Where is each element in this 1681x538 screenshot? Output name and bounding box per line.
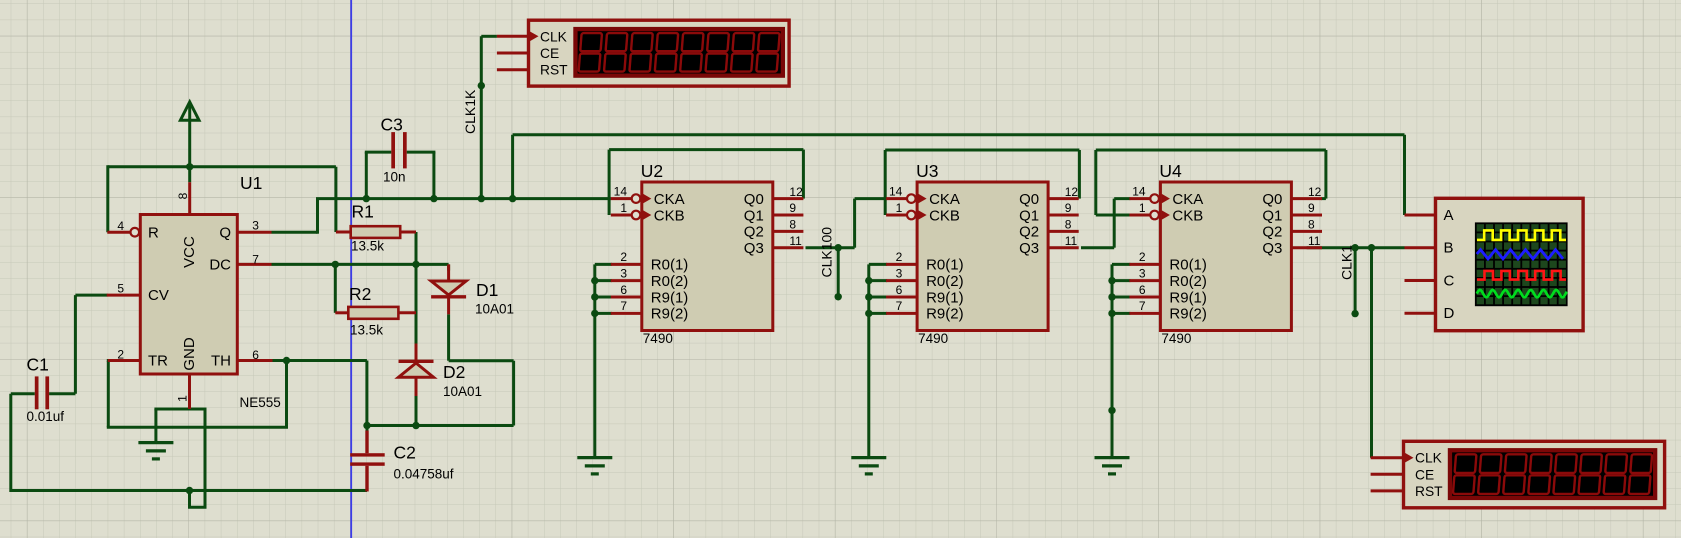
svg-text:3: 3 xyxy=(252,218,259,232)
wire xyxy=(884,150,887,215)
wire xyxy=(107,359,110,362)
svg-text:12: 12 xyxy=(1065,185,1079,199)
wire xyxy=(595,296,612,299)
svg-text:R0(2): R0(2) xyxy=(926,273,964,290)
oscilloscope trace channel C (red square wave) xyxy=(1477,271,1566,280)
wire xyxy=(869,312,887,315)
svg-text:U1: U1 xyxy=(240,173,262,193)
svg-text:10A01: 10A01 xyxy=(475,302,514,317)
wire xyxy=(869,279,887,282)
wire xyxy=(285,361,288,428)
wire xyxy=(1321,197,1326,200)
U2 pin 8 Q2 stub xyxy=(773,230,804,233)
wire xyxy=(9,394,12,492)
svg-text:CKB: CKB xyxy=(654,207,685,224)
junction xyxy=(332,261,339,268)
U2 pin 14 CKA stub xyxy=(611,197,632,200)
U1 pin 2 TR stub xyxy=(108,359,140,362)
wire xyxy=(869,263,887,266)
svg-text:R9(1): R9(1) xyxy=(1169,289,1207,306)
wire xyxy=(11,489,367,492)
capacitor C3 xyxy=(391,132,406,168)
svg-text:Q2: Q2 xyxy=(744,224,764,241)
wire xyxy=(365,152,368,199)
svg-text:10A01: 10A01 xyxy=(443,384,482,399)
svg-text:9: 9 xyxy=(789,201,796,215)
wire xyxy=(1096,214,1131,217)
power symbol VCC arrow xyxy=(180,102,199,120)
DISP1 digit 7 xyxy=(731,33,754,72)
DISP1 pin CE stub xyxy=(497,52,529,55)
wire xyxy=(188,167,191,182)
ground xyxy=(851,458,886,474)
junction xyxy=(186,487,193,494)
svg-text:3: 3 xyxy=(1139,266,1146,280)
svg-text:6: 6 xyxy=(620,283,627,297)
oscilloscope pin C stub xyxy=(1405,279,1436,282)
oscilloscope pin D stub xyxy=(1405,312,1436,315)
junction xyxy=(412,422,419,429)
svg-text:CKA: CKA xyxy=(929,191,960,208)
wire xyxy=(1096,149,1326,152)
svg-text:14: 14 xyxy=(889,184,903,198)
wire xyxy=(75,294,107,297)
wire xyxy=(593,264,596,458)
U1 pin 8 VCC stub xyxy=(188,182,191,214)
junction xyxy=(1108,407,1115,414)
diode D1 10A01 (pointing down) xyxy=(431,264,466,314)
junction xyxy=(591,277,598,284)
svg-text:CLK: CLK xyxy=(540,29,568,44)
capacitor C2 xyxy=(350,431,385,492)
svg-text:R1: R1 xyxy=(352,202,374,222)
junction xyxy=(478,82,485,89)
svg-text:CKB: CKB xyxy=(929,207,960,224)
wire xyxy=(802,150,805,199)
U3 pin 1 CKB stub xyxy=(886,214,907,217)
U3 pin 3 R0(2) stub xyxy=(886,279,917,282)
wire xyxy=(855,197,887,200)
svg-text:5: 5 xyxy=(117,282,124,296)
svg-text:14: 14 xyxy=(614,184,628,198)
svg-text:CE: CE xyxy=(1415,467,1434,482)
svg-text:R9(2): R9(2) xyxy=(926,306,964,323)
junction xyxy=(835,244,842,251)
wire xyxy=(1307,246,1405,249)
wire xyxy=(1081,246,1114,249)
DISP2 digit 4 xyxy=(1528,454,1552,494)
U4 pin 12 Q0 stub xyxy=(1291,197,1322,200)
svg-text:11: 11 xyxy=(1308,234,1321,248)
wire xyxy=(365,151,392,154)
junction xyxy=(591,310,598,317)
junction xyxy=(509,195,516,202)
wire xyxy=(407,151,436,154)
U4 pin 9 Q1 stub xyxy=(1291,214,1322,217)
svg-text:2: 2 xyxy=(620,250,627,264)
svg-text:2: 2 xyxy=(117,348,124,362)
wire xyxy=(480,36,483,198)
junction xyxy=(478,195,485,202)
wire xyxy=(272,231,318,234)
ground xyxy=(138,443,173,459)
wire xyxy=(415,396,418,426)
resistor R2 leads xyxy=(335,311,348,314)
svg-text:RST: RST xyxy=(1415,484,1443,499)
svg-text:7490: 7490 xyxy=(643,331,673,346)
svg-text:12: 12 xyxy=(789,185,803,199)
junction xyxy=(1351,244,1358,251)
svg-text:C: C xyxy=(1444,273,1455,290)
DISP1 screen frame xyxy=(573,27,785,78)
U4 pin 2 R0(1) stub xyxy=(1129,263,1160,266)
svg-text:Q2: Q2 xyxy=(1262,224,1282,241)
diode D2 10A01 (pointing up) xyxy=(399,344,434,397)
wire xyxy=(107,426,288,429)
DISP1 digit 5 xyxy=(680,33,703,72)
junction xyxy=(835,293,842,300)
display module DISP2 body xyxy=(1404,441,1665,508)
svg-text:12: 12 xyxy=(1308,185,1322,199)
wire xyxy=(1113,199,1116,248)
ground xyxy=(577,458,612,474)
svg-text:CV: CV xyxy=(148,287,169,304)
svg-text:CKA: CKA xyxy=(654,191,685,208)
op-amp U1 NE555 timer xyxy=(140,215,237,375)
svg-text:Q3: Q3 xyxy=(1019,240,1039,257)
oscilloscope screen xyxy=(1475,222,1568,306)
svg-text:CKA: CKA xyxy=(1172,191,1203,208)
wire xyxy=(11,392,35,395)
DISP2 screen frame xyxy=(1448,448,1658,500)
junction xyxy=(283,357,290,364)
svg-text:8: 8 xyxy=(1308,218,1315,232)
wire xyxy=(512,361,515,426)
U3 pin 12 Q0 stub xyxy=(1048,197,1079,200)
DISP1 digit 8 xyxy=(756,33,779,72)
svg-text:1: 1 xyxy=(175,395,189,402)
DISP1 digit 3 xyxy=(629,33,652,72)
wire xyxy=(106,165,109,232)
svg-text:R0(1): R0(1) xyxy=(926,257,964,274)
U3 pin 11 Q3 stub xyxy=(1048,246,1079,249)
wire xyxy=(74,295,77,394)
svg-text:7: 7 xyxy=(1139,299,1146,313)
svg-text:Q1: Q1 xyxy=(744,207,764,224)
DISP1 digit 2 xyxy=(604,33,627,72)
svg-text:10n: 10n xyxy=(383,170,406,185)
svg-text:R2: R2 xyxy=(349,284,371,304)
svg-text:C3: C3 xyxy=(381,115,403,135)
svg-text:Q3: Q3 xyxy=(744,240,764,257)
svg-text:Q1: Q1 xyxy=(1262,207,1282,224)
counter U3 7490 xyxy=(917,182,1048,331)
oscilloscope trace channel D (green sine wave) xyxy=(1477,290,1567,297)
svg-text:VCC: VCC xyxy=(181,236,198,268)
U2 pin 6 R9(1) stub xyxy=(611,296,642,299)
wire xyxy=(1094,150,1097,215)
U2 pin 12 Q0 stub xyxy=(773,197,804,200)
wire xyxy=(154,427,157,443)
svg-text:DC: DC xyxy=(209,256,231,273)
sheet divider line xyxy=(350,0,352,538)
svg-text:4: 4 xyxy=(117,219,124,233)
svg-text:Q0: Q0 xyxy=(1262,191,1282,208)
wire xyxy=(154,409,157,427)
junction xyxy=(865,293,872,300)
U3 pin 9 Q1 stub xyxy=(1048,214,1079,217)
U4 pin 3 R0(2) stub xyxy=(1129,279,1160,282)
DISP1 pin CLK stub xyxy=(497,35,529,38)
wire xyxy=(334,167,337,232)
svg-text:Q2: Q2 xyxy=(1019,224,1039,241)
DISP1 digit 1 xyxy=(579,33,602,72)
wire xyxy=(867,264,870,458)
wire xyxy=(511,135,514,199)
oscilloscope pin B stub xyxy=(1405,246,1436,249)
wire xyxy=(107,361,110,427)
wire xyxy=(1324,150,1327,199)
U4 pin 7 R9(2) stub xyxy=(1129,312,1160,315)
wire xyxy=(1370,248,1373,458)
capacitor C1 xyxy=(35,376,49,409)
junction xyxy=(865,277,872,284)
svg-text:9: 9 xyxy=(1065,201,1072,215)
wire xyxy=(481,35,497,38)
svg-text:D: D xyxy=(1444,305,1455,322)
junction xyxy=(1108,293,1115,300)
svg-text:U3: U3 xyxy=(916,161,938,181)
wire xyxy=(1403,135,1406,215)
wire xyxy=(608,150,611,215)
U2 pin 11 Q3 stub xyxy=(773,246,804,249)
junction xyxy=(430,195,437,202)
svg-text:6: 6 xyxy=(252,348,259,362)
oscilloscope trace channel A (yellow square wave) xyxy=(1477,230,1566,240)
wire xyxy=(188,491,191,508)
ground xyxy=(1095,458,1130,474)
wire xyxy=(609,148,803,151)
U2 pin 2 R0(1) stub xyxy=(611,263,642,266)
svg-text:R0(1): R0(1) xyxy=(1169,257,1207,274)
wire xyxy=(108,165,336,168)
wire xyxy=(415,232,418,344)
DISP2 pin RST stub xyxy=(1371,489,1404,492)
svg-text:R9(2): R9(2) xyxy=(651,306,689,323)
resistor R1 xyxy=(351,226,401,238)
svg-text:1: 1 xyxy=(1139,201,1146,215)
junction xyxy=(1351,310,1358,317)
svg-text:11: 11 xyxy=(1065,234,1078,248)
U1 pin 6 TH stub xyxy=(237,359,272,362)
resistor R1 leads xyxy=(336,231,351,234)
svg-text:6: 6 xyxy=(896,283,903,297)
wire xyxy=(1111,264,1114,458)
DISP2 digit 7 xyxy=(1604,454,1628,494)
svg-text:2: 2 xyxy=(896,250,903,264)
U4 pin 8 Q2 stub xyxy=(1291,230,1322,233)
U1 pin 3 Q stub xyxy=(237,231,271,234)
U1 pin 4 R stub xyxy=(107,231,130,234)
U2 pin 3 R0(2) stub xyxy=(611,279,642,282)
oscilloscope pin A stub xyxy=(1405,214,1436,217)
wire xyxy=(366,426,369,432)
wire xyxy=(1114,197,1130,200)
svg-text:CE: CE xyxy=(540,46,559,61)
DISP1 digit 6 xyxy=(705,33,728,72)
svg-text:Q: Q xyxy=(219,224,231,241)
junction xyxy=(186,163,193,170)
svg-text:R9(1): R9(1) xyxy=(651,289,689,306)
svg-text:R0(2): R0(2) xyxy=(651,273,689,290)
svg-text:6: 6 xyxy=(1139,283,1146,297)
svg-text:11: 11 xyxy=(789,234,802,248)
DISP2 digit 6 xyxy=(1578,454,1602,494)
svg-text:Q0: Q0 xyxy=(744,191,764,208)
wire xyxy=(316,197,611,200)
wire xyxy=(1078,150,1081,199)
svg-text:3: 3 xyxy=(620,266,627,280)
svg-text:CLK: CLK xyxy=(1415,451,1443,466)
svg-text:8: 8 xyxy=(789,218,796,232)
svg-text:0.04758uf: 0.04758uf xyxy=(394,466,454,481)
svg-text:7: 7 xyxy=(620,299,627,313)
svg-text:8: 8 xyxy=(176,192,190,199)
svg-text:CLK1K: CLK1K xyxy=(462,89,478,134)
wire xyxy=(449,359,514,362)
wire xyxy=(885,149,1079,152)
svg-text:1: 1 xyxy=(620,201,627,215)
junction xyxy=(1368,244,1375,251)
U4 pin 1 CKB stub xyxy=(1129,214,1150,217)
DISP1 pin RST stub xyxy=(497,68,529,71)
svg-text:NE555: NE555 xyxy=(240,395,281,410)
svg-text:U4: U4 xyxy=(1159,161,1182,181)
svg-text:U2: U2 xyxy=(641,161,663,181)
U1 pin 1 GND stub xyxy=(188,374,191,409)
wire xyxy=(154,408,206,411)
svg-text:A: A xyxy=(1444,207,1454,224)
wire xyxy=(49,392,75,395)
svg-text:R9(2): R9(2) xyxy=(1169,306,1207,323)
wire xyxy=(272,263,449,266)
junction xyxy=(865,310,872,317)
wire xyxy=(595,279,612,282)
counter U4 7490 xyxy=(1160,182,1291,331)
display module DISP1 body xyxy=(529,20,790,86)
U3 pin 8 Q2 stub xyxy=(1048,230,1079,233)
wire xyxy=(853,199,856,248)
svg-text:RST: RST xyxy=(540,63,568,78)
oscilloscope trace channel B (blue wave) xyxy=(1477,250,1563,259)
svg-text:Q0: Q0 xyxy=(1019,191,1039,208)
svg-text:0.01uf: 0.01uf xyxy=(27,409,65,424)
wire xyxy=(447,264,450,270)
U3 pin 6 R9(1) stub xyxy=(886,296,917,299)
U1 pin 7 DC stub xyxy=(237,263,271,266)
oscilloscope body xyxy=(1436,198,1584,330)
wire xyxy=(595,312,612,315)
svg-text:7: 7 xyxy=(252,253,259,267)
wire xyxy=(188,506,207,509)
U4 pin 6 R9(1) stub xyxy=(1129,296,1160,299)
svg-text:13.5k: 13.5k xyxy=(351,239,384,254)
junction xyxy=(1108,310,1115,317)
svg-text:CLK100: CLK100 xyxy=(819,227,835,278)
wire xyxy=(1112,279,1130,282)
DISP2 digit 1 xyxy=(1453,454,1477,494)
junction xyxy=(363,422,370,429)
DISP2 digit 5 xyxy=(1553,454,1577,494)
svg-text:R9(1): R9(1) xyxy=(926,289,964,306)
counter U2 7490 xyxy=(642,182,773,331)
svg-text:7490: 7490 xyxy=(918,331,948,346)
svg-text:3: 3 xyxy=(896,266,903,280)
svg-text:R0(1): R0(1) xyxy=(651,257,689,274)
svg-text:C1: C1 xyxy=(27,355,49,375)
wire xyxy=(595,263,612,266)
svg-text:7490: 7490 xyxy=(1161,331,1191,346)
wire xyxy=(273,359,367,362)
U3 pin 7 R9(2) stub xyxy=(886,312,917,315)
DISP2 pin CLK stub xyxy=(1371,456,1404,459)
svg-text:14: 14 xyxy=(1132,184,1146,198)
svg-text:R: R xyxy=(148,224,159,241)
svg-text:B: B xyxy=(1444,240,1454,257)
wire xyxy=(367,424,514,427)
wire xyxy=(334,264,337,312)
svg-text:8: 8 xyxy=(1065,218,1072,232)
wire xyxy=(837,248,840,297)
wire xyxy=(432,152,435,199)
DISP2 pin CE stub xyxy=(1371,473,1404,476)
svg-text:Q3: Q3 xyxy=(1262,240,1282,257)
wire xyxy=(1112,296,1130,299)
wire xyxy=(869,296,887,299)
svg-text:TR: TR xyxy=(148,353,168,370)
svg-text:GND: GND xyxy=(181,337,198,371)
wire xyxy=(513,133,1405,136)
wire xyxy=(1354,248,1357,314)
svg-text:2: 2 xyxy=(1139,250,1146,264)
wire xyxy=(188,120,191,167)
wire xyxy=(316,199,319,234)
U2 pin 7 R9(2) stub xyxy=(611,312,642,315)
svg-text:1: 1 xyxy=(896,201,903,215)
svg-text:D2: D2 xyxy=(443,362,465,382)
junction xyxy=(1108,277,1115,284)
wire xyxy=(447,314,450,360)
U3 pin 2 R0(1) stub xyxy=(886,263,917,266)
DISP2 digit 8 xyxy=(1629,454,1653,494)
wire xyxy=(1112,312,1130,315)
svg-text:C2: C2 xyxy=(394,443,416,463)
U2 pin 1 CKB stub xyxy=(611,214,632,217)
U4 pin 14 CKA stub xyxy=(1129,197,1150,200)
DISP1 digit 4 xyxy=(655,33,678,72)
U2 pin 9 Q1 stub xyxy=(773,214,804,217)
U1 pin 5 CV stub xyxy=(107,294,140,297)
wire xyxy=(806,246,855,249)
junction xyxy=(363,195,370,202)
DISP2 digit 3 xyxy=(1503,454,1527,494)
svg-text:13.5k: 13.5k xyxy=(350,323,383,338)
U3 pin 14 CKA stub xyxy=(886,197,907,200)
svg-text:Q1: Q1 xyxy=(1019,207,1039,224)
resistor R2 xyxy=(348,307,398,319)
U4 pin 11 Q3 stub xyxy=(1291,246,1322,249)
wire xyxy=(365,361,368,426)
